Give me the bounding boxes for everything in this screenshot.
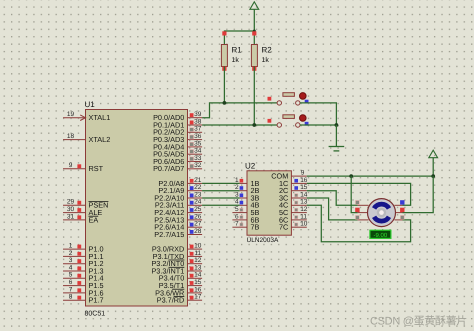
- push button SW2 contacts: [277, 123, 281, 127]
- svg-text:7: 7: [235, 221, 239, 228]
- svg-text:16: 16: [194, 286, 202, 293]
- U1 pin 33: [188, 161, 203, 163]
- U2 pin 16 1C: [291, 182, 306, 184]
- svg-text:37: 37: [194, 126, 202, 133]
- svg-text:22: 22: [194, 184, 202, 191]
- U1 pin 7 P1.6: [63, 292, 86, 294]
- wire to ground symbol: [335, 125, 337, 147]
- U1 pin 1 P1.0: [63, 248, 86, 250]
- junction R1/P0.0: [223, 101, 227, 105]
- wire VCC to R2 top: [253, 9, 255, 44]
- svg-text:5: 5: [235, 206, 239, 213]
- svg-text:RST: RST: [89, 164, 104, 173]
- wire P0.1 (pin 38) to button SW2: [202, 124, 279, 126]
- power terminal VCC (top): [250, 2, 259, 10]
- svg-text:14: 14: [300, 191, 308, 198]
- svg-text:6: 6: [235, 213, 239, 220]
- svg-text:3: 3: [69, 257, 73, 264]
- wire U2 1C to motor right top coil: [307, 183, 411, 205]
- svg-text:36: 36: [194, 133, 202, 140]
- motor speed display: [370, 230, 391, 238]
- svg-text:P3.7/RD: P3.7/RD: [157, 296, 185, 305]
- svg-text:9: 9: [69, 162, 73, 169]
- U1 pin 37: [188, 131, 203, 133]
- wire U2 2C to motor left top coil: [307, 191, 358, 206]
- resistor R1 1k: [221, 45, 227, 67]
- push button SW2 state squares: [268, 119, 272, 123]
- svg-text:24: 24: [194, 199, 202, 206]
- svg-text:3: 3: [235, 191, 239, 198]
- push button SW1 actuator bar: [283, 93, 295, 97]
- junction buttons/ground: [335, 123, 339, 127]
- push button SW1 knob: [300, 93, 307, 100]
- svg-text:16: 16: [300, 177, 308, 184]
- wire R1 bottom to P0.0 net: [223, 67, 225, 103]
- stepper motor M1 body: [368, 199, 396, 227]
- svg-text:XTAL1: XTAL1: [89, 113, 111, 122]
- junction COM/VCC: [431, 174, 435, 178]
- U1 pin 35: [188, 146, 203, 148]
- svg-text:7C: 7C: [279, 223, 288, 232]
- wire P0.0 (pin 39) to button SW1: [202, 103, 279, 118]
- svg-text:U1: U1: [85, 100, 96, 109]
- push button SW2 knob: [300, 115, 307, 122]
- stepper motor M1 pin stubs: [358, 204, 369, 206]
- svg-text:R1: R1: [232, 46, 243, 55]
- svg-text:12: 12: [300, 206, 308, 213]
- U1 pin 28: [188, 234, 203, 236]
- wire COM down to motor left common: [351, 176, 357, 213]
- U1 pin 31 EA: [63, 219, 86, 221]
- svg-text:31: 31: [67, 213, 75, 220]
- U2 pin 4 4B: [240, 204, 247, 206]
- svg-text:27: 27: [194, 221, 202, 228]
- svg-text:U2: U2: [245, 161, 256, 170]
- svg-text:10: 10: [300, 221, 308, 228]
- U1 pin 39: [188, 117, 203, 119]
- wire VCC right to COM rail: [432, 158, 434, 176]
- wire R1 top to VCC rail: [224, 31, 254, 45]
- push button SW1 state squares: [268, 97, 272, 101]
- microcontroller U1 80C51 body: [86, 110, 188, 307]
- svg-text:11: 11: [194, 250, 201, 257]
- junction VCC/R1/R2: [253, 30, 256, 33]
- U1 pin 27: [188, 226, 203, 228]
- svg-text:26: 26: [194, 213, 202, 220]
- svg-text:P0.7/AD7: P0.7/AD7: [153, 164, 184, 173]
- svg-text:2: 2: [235, 184, 239, 191]
- U1 pin 23: [188, 197, 203, 199]
- svg-text:34: 34: [194, 148, 202, 155]
- U1 pin 12: [188, 263, 203, 265]
- U1 pin 21: [188, 182, 203, 184]
- push button SW2 actuator bar: [283, 115, 295, 119]
- svg-text:28: 28: [194, 228, 202, 235]
- wire U2 4C to motor right bottom coil: [307, 205, 411, 242]
- U2 pin 3 3B: [240, 197, 247, 199]
- svg-text:17: 17: [194, 294, 202, 301]
- U1 pin 2 P1.1: [63, 255, 86, 257]
- ground symbol: [329, 146, 345, 148]
- U2 pin 7 7B: [232, 226, 247, 228]
- svg-text:1k: 1k: [262, 56, 270, 64]
- U1 pin 6 P1.5: [63, 285, 86, 287]
- svg-text:29: 29: [67, 199, 75, 206]
- U1 pin 3 P1.2: [63, 263, 86, 265]
- svg-text:7B: 7B: [251, 223, 260, 232]
- wires U1 P2.0-P2.3 to U2 1B-4B: [202, 182, 240, 184]
- U2 pin 15 2C: [291, 190, 306, 192]
- svg-text:10: 10: [194, 243, 202, 250]
- U2 pin 5 5B: [232, 212, 247, 214]
- U2 pin 12 5C: [291, 212, 306, 214]
- U1 pin 25: [188, 212, 203, 214]
- U1 pin 9 RST: [63, 168, 86, 170]
- svg-text:P1.7: P1.7: [89, 296, 104, 305]
- svg-text:23: 23: [194, 191, 202, 198]
- svg-text:15: 15: [300, 184, 308, 191]
- svg-text:4: 4: [69, 264, 73, 271]
- svg-text:19: 19: [67, 111, 75, 118]
- svg-text:14: 14: [194, 272, 202, 279]
- stepper motor state squares: [355, 200, 359, 204]
- svg-text:7: 7: [69, 286, 73, 293]
- U1 pin 4 P1.3: [63, 270, 86, 272]
- U2 pin 1 1B: [240, 182, 247, 184]
- U1 pin 13: [188, 270, 203, 272]
- svg-text:8: 8: [69, 294, 73, 301]
- U1 pin 24: [188, 204, 203, 206]
- svg-text:33: 33: [194, 155, 202, 162]
- U2 pin 2 2B: [240, 190, 247, 192]
- U2 pin 13 4C: [291, 204, 306, 206]
- svg-text:18: 18: [67, 133, 75, 140]
- U1 pin 30 ALE: [63, 212, 86, 214]
- svg-text:ULN2003A: ULN2003A: [247, 237, 279, 244]
- U1 pin 14: [188, 277, 203, 279]
- U2 pin 14 3C: [291, 197, 306, 199]
- svg-text:21: 21: [194, 177, 202, 184]
- U2 pin 6 6B: [232, 219, 247, 221]
- U1 pin 34: [188, 153, 203, 155]
- wire U2 3C to motor left bottom coil: [307, 198, 358, 220]
- U1 pin 32: [188, 168, 203, 170]
- svg-text:32: 32: [194, 162, 202, 169]
- stepper motor hub: [377, 208, 386, 217]
- U1 pin 17: [188, 299, 203, 301]
- svg-text:EA: EA: [89, 215, 99, 224]
- svg-text:-9.00: -9.00: [374, 232, 388, 239]
- U2 pin 10 7C: [291, 226, 306, 228]
- svg-text:25: 25: [194, 206, 202, 213]
- wire R2 bottom to P0.1 net: [253, 67, 255, 126]
- svg-text:XTAL2: XTAL2: [89, 135, 111, 144]
- U1 pin 16: [188, 292, 203, 294]
- U1 pin 11: [188, 255, 203, 257]
- U1 pin 8 P1.7: [63, 299, 86, 301]
- svg-text:5: 5: [69, 272, 73, 279]
- svg-text:35: 35: [194, 140, 202, 147]
- wire U2 COM rail: [307, 175, 433, 177]
- wire SW1 to ground rail: [300, 103, 336, 125]
- svg-text:1: 1: [235, 177, 239, 184]
- svg-text:2: 2: [69, 250, 73, 257]
- U1 pin 22: [188, 190, 203, 192]
- svg-text:15: 15: [194, 279, 202, 286]
- svg-text:80C51: 80C51: [85, 311, 106, 318]
- U1 pin 29 PSEN: [63, 204, 86, 206]
- svg-text:4: 4: [235, 199, 239, 206]
- wire SW2 to ground rail: [300, 124, 336, 126]
- svg-text:1k: 1k: [232, 56, 240, 64]
- push button SW1 contacts: [277, 101, 281, 105]
- svg-text:30: 30: [67, 206, 75, 213]
- U1 pin 15: [188, 285, 203, 287]
- driver U2 ULN2003A body: [247, 171, 291, 235]
- svg-text:11: 11: [300, 213, 307, 220]
- junction R2/P0.1: [252, 123, 256, 127]
- U1 pin 36: [188, 139, 203, 141]
- resistor R2 1k: [251, 45, 257, 67]
- svg-text:12: 12: [194, 257, 202, 264]
- svg-text:39: 39: [194, 111, 202, 118]
- svg-text:P2.7/A15: P2.7/A15: [154, 230, 184, 239]
- U1 pin 10: [188, 248, 203, 250]
- svg-text:R2: R2: [262, 46, 273, 55]
- U2 pin 11 6C: [291, 219, 306, 221]
- svg-text:13: 13: [194, 264, 202, 271]
- U1 pin 5 P1.4: [63, 277, 86, 279]
- power terminal VCC (right): [429, 150, 438, 158]
- svg-text:38: 38: [194, 118, 202, 125]
- stepper motor coil arcs: [374, 204, 389, 208]
- U1 pin 26: [188, 219, 203, 221]
- svg-text:9: 9: [301, 169, 305, 176]
- svg-text:1: 1: [69, 243, 73, 250]
- wire VCC down to motor right common: [403, 176, 434, 213]
- junction COM/motor left common: [349, 174, 353, 178]
- svg-text:CSDN @蛋黄酥薯片: CSDN @蛋黄酥薯片: [370, 315, 467, 328]
- svg-text:6: 6: [69, 279, 73, 286]
- U1 pin 19 XTAL1: [63, 117, 86, 119]
- U1 pin 18 XTAL2: [63, 139, 86, 141]
- U2 pin 9 COM: [291, 175, 306, 177]
- svg-text:13: 13: [300, 199, 308, 206]
- U1 XTAL1 clock symbol: [80, 115, 85, 121]
- U1 pin 38: [188, 124, 203, 126]
